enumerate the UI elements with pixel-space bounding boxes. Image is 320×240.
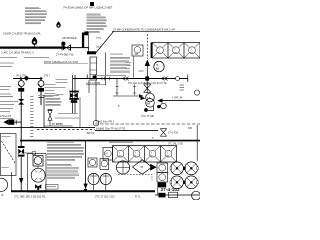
- wire x89: [88, 80, 90, 93]
- bottom header line: [11, 190, 155, 192]
- valve symbol on limit line right: [160, 128, 167, 136]
- filter circle: [116, 161, 129, 174]
- svg-text:BY PMT: BY PMT: [52, 123, 61, 126]
- left arrow blowdown: [3, 119, 8, 125]
- valve clusters on double pipe: [69, 91, 78, 103]
- riser continuation with valves: [18, 146, 25, 157]
- GAS double circle: [146, 93, 155, 102]
- slope line to heading: [96, 32, 114, 53]
- vertical drop w/ control valve to GAS: [146, 81, 148, 94]
- junction dot: [145, 76, 149, 80]
- svg-text:27-PV-0B1 F0L: 27-PV-0B1 F0L: [56, 52, 74, 56]
- main MP liquid header: [0, 46, 63, 48]
- corner pump circle: [0, 178, 8, 191]
- svg-text:8.8&#2 30m TF 6x1 P TE: 8.8&#2 30m TF 6x1 P TE: [96, 126, 125, 130]
- heavy battery limit line: [20, 140, 200, 142]
- small instrument circle right edge: [194, 90, 199, 95]
- small equipment row: [88, 158, 97, 167]
- svg-text:27Q-A-07: 27Q-A-07: [0, 115, 11, 118]
- svg-text:2M: 2M: [118, 156, 121, 158]
- block valve at riser top: [87, 51, 96, 54]
- svg-text:1&#2 30m FR 1: 1&#2 30m FR 1: [96, 120, 115, 124]
- double line pipe center: [72, 75, 74, 114]
- instrument balloon small: [56, 21, 60, 28]
- center vertical divider: [85, 141, 87, 188]
- flow arrows on line: [122, 77, 128, 81]
- svg-text:9M: 9M: [147, 102, 151, 106]
- twin valves under drum: [35, 184, 41, 190]
- svg-text:27-0-F10: 27-0-F10: [168, 131, 179, 134]
- svg-text:37 MP CONDENSATE TO CONDENSATE: 37 MP CONDENSATE TO CONDENSATE MX L 4 P: [113, 27, 175, 31]
- arrow into separator: [141, 96, 146, 100]
- svg-text:PROD CRUDE+GAS V/L 5 PD: PROD CRUDE+GAS V/L 5 PD: [44, 61, 78, 64]
- svg-text:7R 6 JTE: 7R 6 JTE: [16, 74, 26, 77]
- bank inlet box: [103, 148, 113, 161]
- svg-text:9M: 9M: [135, 53, 138, 56]
- svg-text:+0(1 1/2)JW: +0(1 1/2)JW: [86, 81, 101, 85]
- svg-text:JTC JT GB: JTC JT GB: [141, 114, 154, 118]
- svg-text:[nc]: [nc]: [97, 36, 101, 40]
- line to right edge with arrow into GAS: [162, 100, 200, 102]
- svg-text:2M: 2M: [174, 52, 177, 54]
- svg-text:7% E/W LINES OF MP LIQ(NC) NET: 7% E/W LINES OF MP LIQ(NC) NET: [63, 6, 113, 10]
- wire y96 with arrow: [113, 95, 140, 97]
- svg-text:3 JRC CYL0E30 7R-NN-C-3: 3 JRC CYL0E30 7R-NN-C-3: [1, 51, 34, 55]
- inline sight glass: [176, 77, 180, 81]
- enclosure box left edge: [43, 95, 45, 127]
- note block C: [110, 54, 130, 72]
- air cooler bank top right: [151, 43, 200, 59]
- air cooler bank bottom: [113, 146, 177, 163]
- svg-text:9C: 9C: [150, 156, 153, 158]
- drain dot and seal: [144, 108, 148, 112]
- diamond valve on header: [24, 76, 30, 81]
- small tag box: [46, 185, 59, 190]
- bottom line fittings: [159, 193, 166, 198]
- wire left of drum: [11, 172, 13, 191]
- relief balloon on main line: [32, 37, 38, 45]
- svg-text:(nc): (nc): [96, 45, 101, 49]
- svg-text:3 NOR CYL0E30 7R-NN-0C-0FL: 3 NOR CYL0E30 7R-NN-0C-0FL: [3, 32, 41, 36]
- plenum boxes under bank: [157, 163, 168, 173]
- note block E: [47, 141, 84, 160]
- drum box with circles: [27, 154, 46, 193]
- svg-text:F: F: [118, 104, 120, 108]
- instrument bubble on x96: [93, 120, 99, 126]
- exchanger box with circle: [132, 45, 143, 56]
- tiny notes left of arrow: [125, 62, 131, 69]
- left margin texts: [0, 57, 68, 119]
- instrument bubble PG: [154, 61, 164, 71]
- svg-text:M: M: [105, 153, 107, 156]
- small dot + circle: [157, 105, 160, 108]
- note block D: [38, 95, 62, 105]
- wire right edge down to bank: [196, 125, 198, 161]
- gate valve vertical in box: [48, 109, 53, 126]
- svg-text:R 7L: R 7L: [135, 194, 141, 198]
- label above air cooler: [109, 142, 133, 143]
- up arrow: [145, 60, 150, 67]
- riser from header: [88, 48, 90, 53]
- svg-text:B8 C/J: B8 C/J: [87, 132, 95, 135]
- svg-text:JTC JM3 JSE 2 D2-102 R2: JTC JM3 JSE 2 D2-102 R2: [14, 194, 46, 198]
- small dropout box under riser: [90, 57, 97, 80]
- vertical char column: [30, 96, 33, 137]
- logo square: [90, 2, 94, 6]
- svg-text:G5: G5: [147, 96, 151, 100]
- wire from exchanger E1 down: [133, 56, 135, 78]
- svg-text:GB JRC0FFE: GB JRC0FFE: [62, 37, 77, 40]
- svg-text:JTE 7: JTE 7: [44, 74, 51, 77]
- svg-text:JTC 27 101 2 D2: JTC 27 101 2 D2: [95, 194, 115, 198]
- tall stand box bottom left: [0, 134, 16, 176]
- control valve PV on header: [61, 42, 70, 51]
- wire x117: [116, 79, 118, 96]
- valve stack on riser 1: [18, 81, 24, 105]
- svg-text:1 JRC JN: 1 JRC JN: [172, 96, 183, 99]
- svg-text:D.B: D.B: [188, 127, 192, 130]
- mixer diamond: [133, 160, 153, 175]
- collector line mid right: [73, 78, 188, 80]
- line end cap: [187, 75, 189, 83]
- dashed signal drop: [146, 34, 148, 59]
- valve stack on riser 2: [38, 81, 44, 98]
- spec break bar: [82, 33, 84, 48]
- pumps pair: [88, 173, 99, 184]
- note block top-left: [25, 7, 47, 23]
- wire vertical x105: [105, 53, 107, 86]
- note block F: [47, 164, 79, 178]
- note block B: [87, 14, 107, 32]
- gauge stem x134: [134, 85, 136, 96]
- wire x96: [95, 80, 97, 121]
- svg-text:9M: 9M: [156, 67, 160, 71]
- fan circles 2x2: [170, 162, 198, 189]
